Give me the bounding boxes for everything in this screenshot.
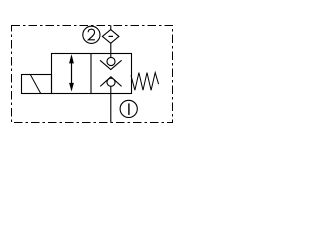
port 1 numeral (vertical stroke) — [128, 103, 130, 115]
port 1 label circle — [120, 100, 137, 117]
flow-path arrow (open position) — [71, 58, 73, 88]
upper poppet seat (V) — [100, 60, 122, 69]
wire: top border to orifice — [110, 26, 112, 31]
port 2 label circle — [83, 26, 100, 43]
valve position divider — [90, 54, 92, 94]
wire: orifice to valve port — [110, 43, 112, 53]
wire: valve bottom to bottom border — [110, 94, 112, 123]
port 2 numeral — [88, 29, 95, 40]
solenoid diagonal — [30, 75, 40, 94]
lower poppet seat (inverted V) — [100, 77, 121, 87]
wire: valve top edge to upper poppet — [110, 54, 112, 59]
spring (return) — [131, 73, 159, 91]
orifice restriction dash — [109, 35, 114, 37]
lower poppet ball — [107, 78, 115, 86]
enclosure boundary (dash-dot envelope) — [12, 26, 173, 123]
upper poppet ball — [107, 57, 115, 65]
solenoid S1 box — [22, 75, 52, 94]
valve body V1 (2-position envelope) — [52, 54, 132, 94]
wire: lower poppet to valve bottom edge — [110, 86, 112, 93]
orifice D1 (diamond) — [102, 30, 119, 44]
